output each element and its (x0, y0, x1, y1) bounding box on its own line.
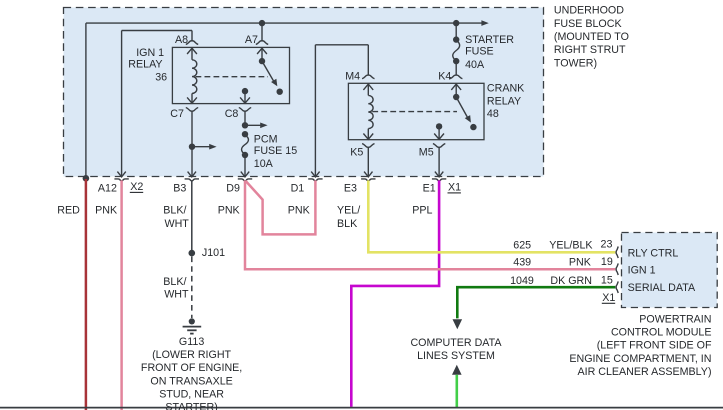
svg-text:X2: X2 (130, 181, 143, 193)
svg-text:E1: E1 (423, 182, 436, 194)
svg-text:PCM: PCM (254, 133, 278, 145)
svg-text:X1: X1 (602, 292, 615, 304)
svg-text:YEL/BLK: YEL/BLK (549, 239, 593, 251)
svg-text:RLY CTRL: RLY CTRL (628, 247, 679, 259)
svg-text:SERIAL DATA: SERIAL DATA (628, 282, 696, 294)
svg-text:48: 48 (487, 108, 499, 120)
svg-text:UNDERHOOD: UNDERHOOD (554, 5, 624, 17)
svg-text:AIR CLEANER ASSEMBLY): AIR CLEANER ASSEMBLY) (577, 366, 711, 378)
svg-text:PPL: PPL (412, 204, 432, 216)
svg-text:625: 625 (513, 239, 531, 251)
svg-text:A8: A8 (175, 34, 188, 46)
svg-text:X1: X1 (448, 181, 461, 193)
svg-text:FUSE: FUSE (465, 46, 494, 58)
svg-text:RELAY: RELAY (128, 58, 162, 70)
svg-text:A7: A7 (245, 34, 258, 46)
svg-text:M5: M5 (419, 147, 434, 159)
svg-text:PNK: PNK (218, 204, 241, 216)
svg-text:YEL/: YEL/ (337, 204, 360, 216)
svg-text:PNK: PNK (288, 204, 311, 216)
svg-text:15: 15 (601, 275, 613, 287)
svg-text:40A: 40A (465, 59, 485, 71)
svg-text:STARTER): STARTER) (165, 402, 217, 410)
svg-text:1049: 1049 (510, 275, 534, 287)
svg-text:FUSE BLOCK: FUSE BLOCK (554, 18, 623, 30)
svg-text:POWERTRAIN: POWERTRAIN (639, 313, 711, 325)
svg-text:TOWER): TOWER) (554, 57, 597, 69)
svg-text:PNK: PNK (569, 256, 592, 268)
svg-text:36: 36 (155, 72, 167, 84)
svg-text:(LOWER RIGHT: (LOWER RIGHT (152, 349, 231, 361)
svg-text:IGN 1: IGN 1 (628, 265, 656, 277)
svg-text:WHT: WHT (165, 218, 190, 230)
svg-text:E3: E3 (344, 182, 357, 194)
svg-text:K5: K5 (350, 147, 363, 159)
svg-text:DK GRN: DK GRN (550, 275, 592, 287)
svg-text:BLK/: BLK/ (163, 204, 186, 216)
svg-text:K4: K4 (438, 71, 451, 83)
svg-text:D1: D1 (291, 182, 305, 194)
svg-text:RIGHT STRUT: RIGHT STRUT (554, 44, 626, 56)
svg-text:COMPUTER DATA: COMPUTER DATA (410, 337, 502, 349)
svg-text:RED: RED (57, 204, 80, 216)
svg-text:RELAY: RELAY (487, 95, 521, 107)
svg-text:439: 439 (513, 256, 531, 268)
svg-text:STUD, NEAR: STUD, NEAR (159, 388, 224, 400)
svg-text:BLK: BLK (337, 218, 358, 230)
svg-text:10A: 10A (254, 158, 274, 170)
svg-text:M4: M4 (345, 71, 360, 83)
svg-text:D9: D9 (226, 182, 240, 194)
svg-text:G113: G113 (179, 336, 204, 348)
svg-text:19: 19 (601, 256, 613, 268)
svg-text:J101: J101 (202, 247, 225, 259)
svg-text:23: 23 (601, 239, 613, 251)
svg-text:FUSE 15: FUSE 15 (254, 145, 297, 157)
svg-text:IGN 1: IGN 1 (136, 47, 164, 59)
svg-text:STARTER: STARTER (465, 34, 514, 46)
svg-text:(MOUNTED TO: (MOUNTED TO (554, 31, 629, 43)
svg-text:C8: C8 (225, 108, 239, 120)
svg-text:ENGINE COMPARTMENT, IN: ENGINE COMPARTMENT, IN (569, 353, 711, 365)
svg-text:PNK: PNK (95, 204, 118, 216)
svg-text:CONTROL MODULE: CONTROL MODULE (611, 327, 712, 339)
svg-text:ON TRANSAXLE: ON TRANSAXLE (150, 375, 232, 387)
svg-text:(LEFT FRONT SIDE OF: (LEFT FRONT SIDE OF (597, 340, 712, 352)
svg-text:FRONT OF ENGINE,: FRONT OF ENGINE, (141, 362, 242, 374)
svg-text:BLK/: BLK/ (163, 276, 186, 288)
svg-text:B3: B3 (173, 182, 186, 194)
svg-text:WHT: WHT (164, 288, 189, 300)
svg-text:A12: A12 (98, 182, 117, 194)
svg-text:LINES SYSTEM: LINES SYSTEM (417, 350, 495, 362)
svg-text:C7: C7 (170, 108, 184, 120)
svg-text:CRANK: CRANK (487, 82, 525, 94)
